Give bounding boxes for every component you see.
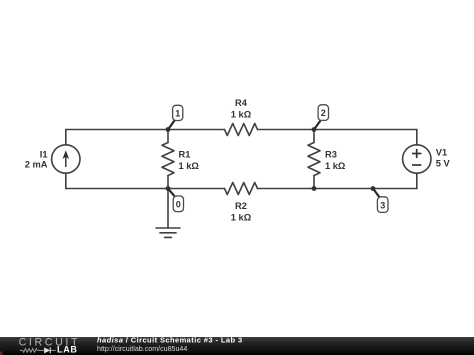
svg-text:1 kΩ: 1 kΩ bbox=[231, 110, 252, 120]
junction node 3 bbox=[371, 186, 376, 191]
wire V1 top lead bbox=[416, 130, 418, 146]
svg-text:2: 2 bbox=[321, 108, 326, 118]
junction R3 bottom bbox=[312, 186, 317, 191]
svg-text:0: 0 bbox=[176, 200, 181, 210]
logo diode triangle bbox=[44, 347, 50, 353]
junction node 2 bbox=[312, 127, 317, 132]
svg-text:R3: R3 bbox=[325, 150, 337, 160]
current source I1 arrow bbox=[63, 150, 70, 167]
svg-text:LAB: LAB bbox=[57, 345, 78, 355]
node 1 callout bbox=[168, 105, 183, 129]
svg-text:R1: R1 bbox=[179, 150, 191, 160]
svg-text:V1: V1 bbox=[436, 148, 447, 158]
svg-text:http://circuitlab.com/cu85u44: http://circuitlab.com/cu85u44 bbox=[97, 345, 187, 353]
node 2 callout bbox=[314, 105, 329, 130]
svg-text:R2: R2 bbox=[235, 201, 247, 211]
current source I1 circle bbox=[52, 145, 80, 173]
voltage source V1 minus sign bbox=[412, 164, 421, 166]
wire ground lead bbox=[167, 189, 169, 229]
ground bbox=[156, 228, 180, 237]
svg-text:I1: I1 bbox=[40, 150, 48, 160]
svg-text:3: 3 bbox=[380, 200, 385, 210]
wire node 3 to V1 bbox=[373, 188, 417, 190]
wire top rail I1 to node 1 bbox=[66, 129, 168, 131]
wire R1 bottom lead bbox=[167, 176, 169, 189]
svg-text:1 kΩ: 1 kΩ bbox=[231, 213, 252, 223]
wire node 0 to R2 bbox=[168, 188, 225, 190]
svg-text:2 mA: 2 mA bbox=[25, 160, 48, 170]
junction node 0 bbox=[166, 186, 171, 191]
wire R1 top lead bbox=[167, 130, 169, 143]
voltage source V1 circle bbox=[403, 145, 431, 173]
footer red mark bottom-left bbox=[0, 352, 3, 355]
wire bottom rail I1 to node 0 bbox=[66, 188, 168, 190]
wire R3 junction to node 3 bbox=[314, 188, 373, 190]
logo wire with resistor and diode bbox=[20, 348, 56, 354]
resistor R4 bbox=[225, 124, 258, 136]
wire R3 bottom lead bbox=[313, 176, 315, 189]
junction node 1 bbox=[166, 127, 171, 132]
wire R4 to node 2 bbox=[258, 129, 315, 131]
wire V1 bottom lead bbox=[416, 173, 418, 188]
resistor R3 bbox=[308, 143, 320, 176]
svg-text:1: 1 bbox=[175, 108, 180, 118]
svg-text:hadisa / Circuit Schematic #3: hadisa / Circuit Schematic #3 - Lab 3 bbox=[97, 336, 243, 345]
svg-text:R4: R4 bbox=[235, 98, 248, 108]
resistor R2 bbox=[225, 183, 258, 195]
wire R2 to R3 bottom junction bbox=[258, 188, 315, 190]
node 0 callout bbox=[168, 189, 184, 212]
node 3 callout bbox=[373, 189, 388, 213]
wire node 2 to V1 bbox=[314, 129, 417, 131]
footer bar bbox=[0, 337, 474, 355]
wire R3 top lead bbox=[313, 130, 315, 143]
wire node 1 to R4 bbox=[168, 129, 225, 131]
voltage source V1 plus sign bbox=[412, 149, 421, 158]
svg-text:1 kΩ: 1 kΩ bbox=[325, 161, 346, 171]
wire I1 bottom lead bbox=[65, 173, 67, 188]
svg-text:1 kΩ: 1 kΩ bbox=[179, 161, 200, 171]
wire I1 top lead bbox=[65, 130, 67, 145]
resistor R1 bbox=[162, 143, 174, 176]
svg-text:5 V: 5 V bbox=[436, 159, 451, 169]
